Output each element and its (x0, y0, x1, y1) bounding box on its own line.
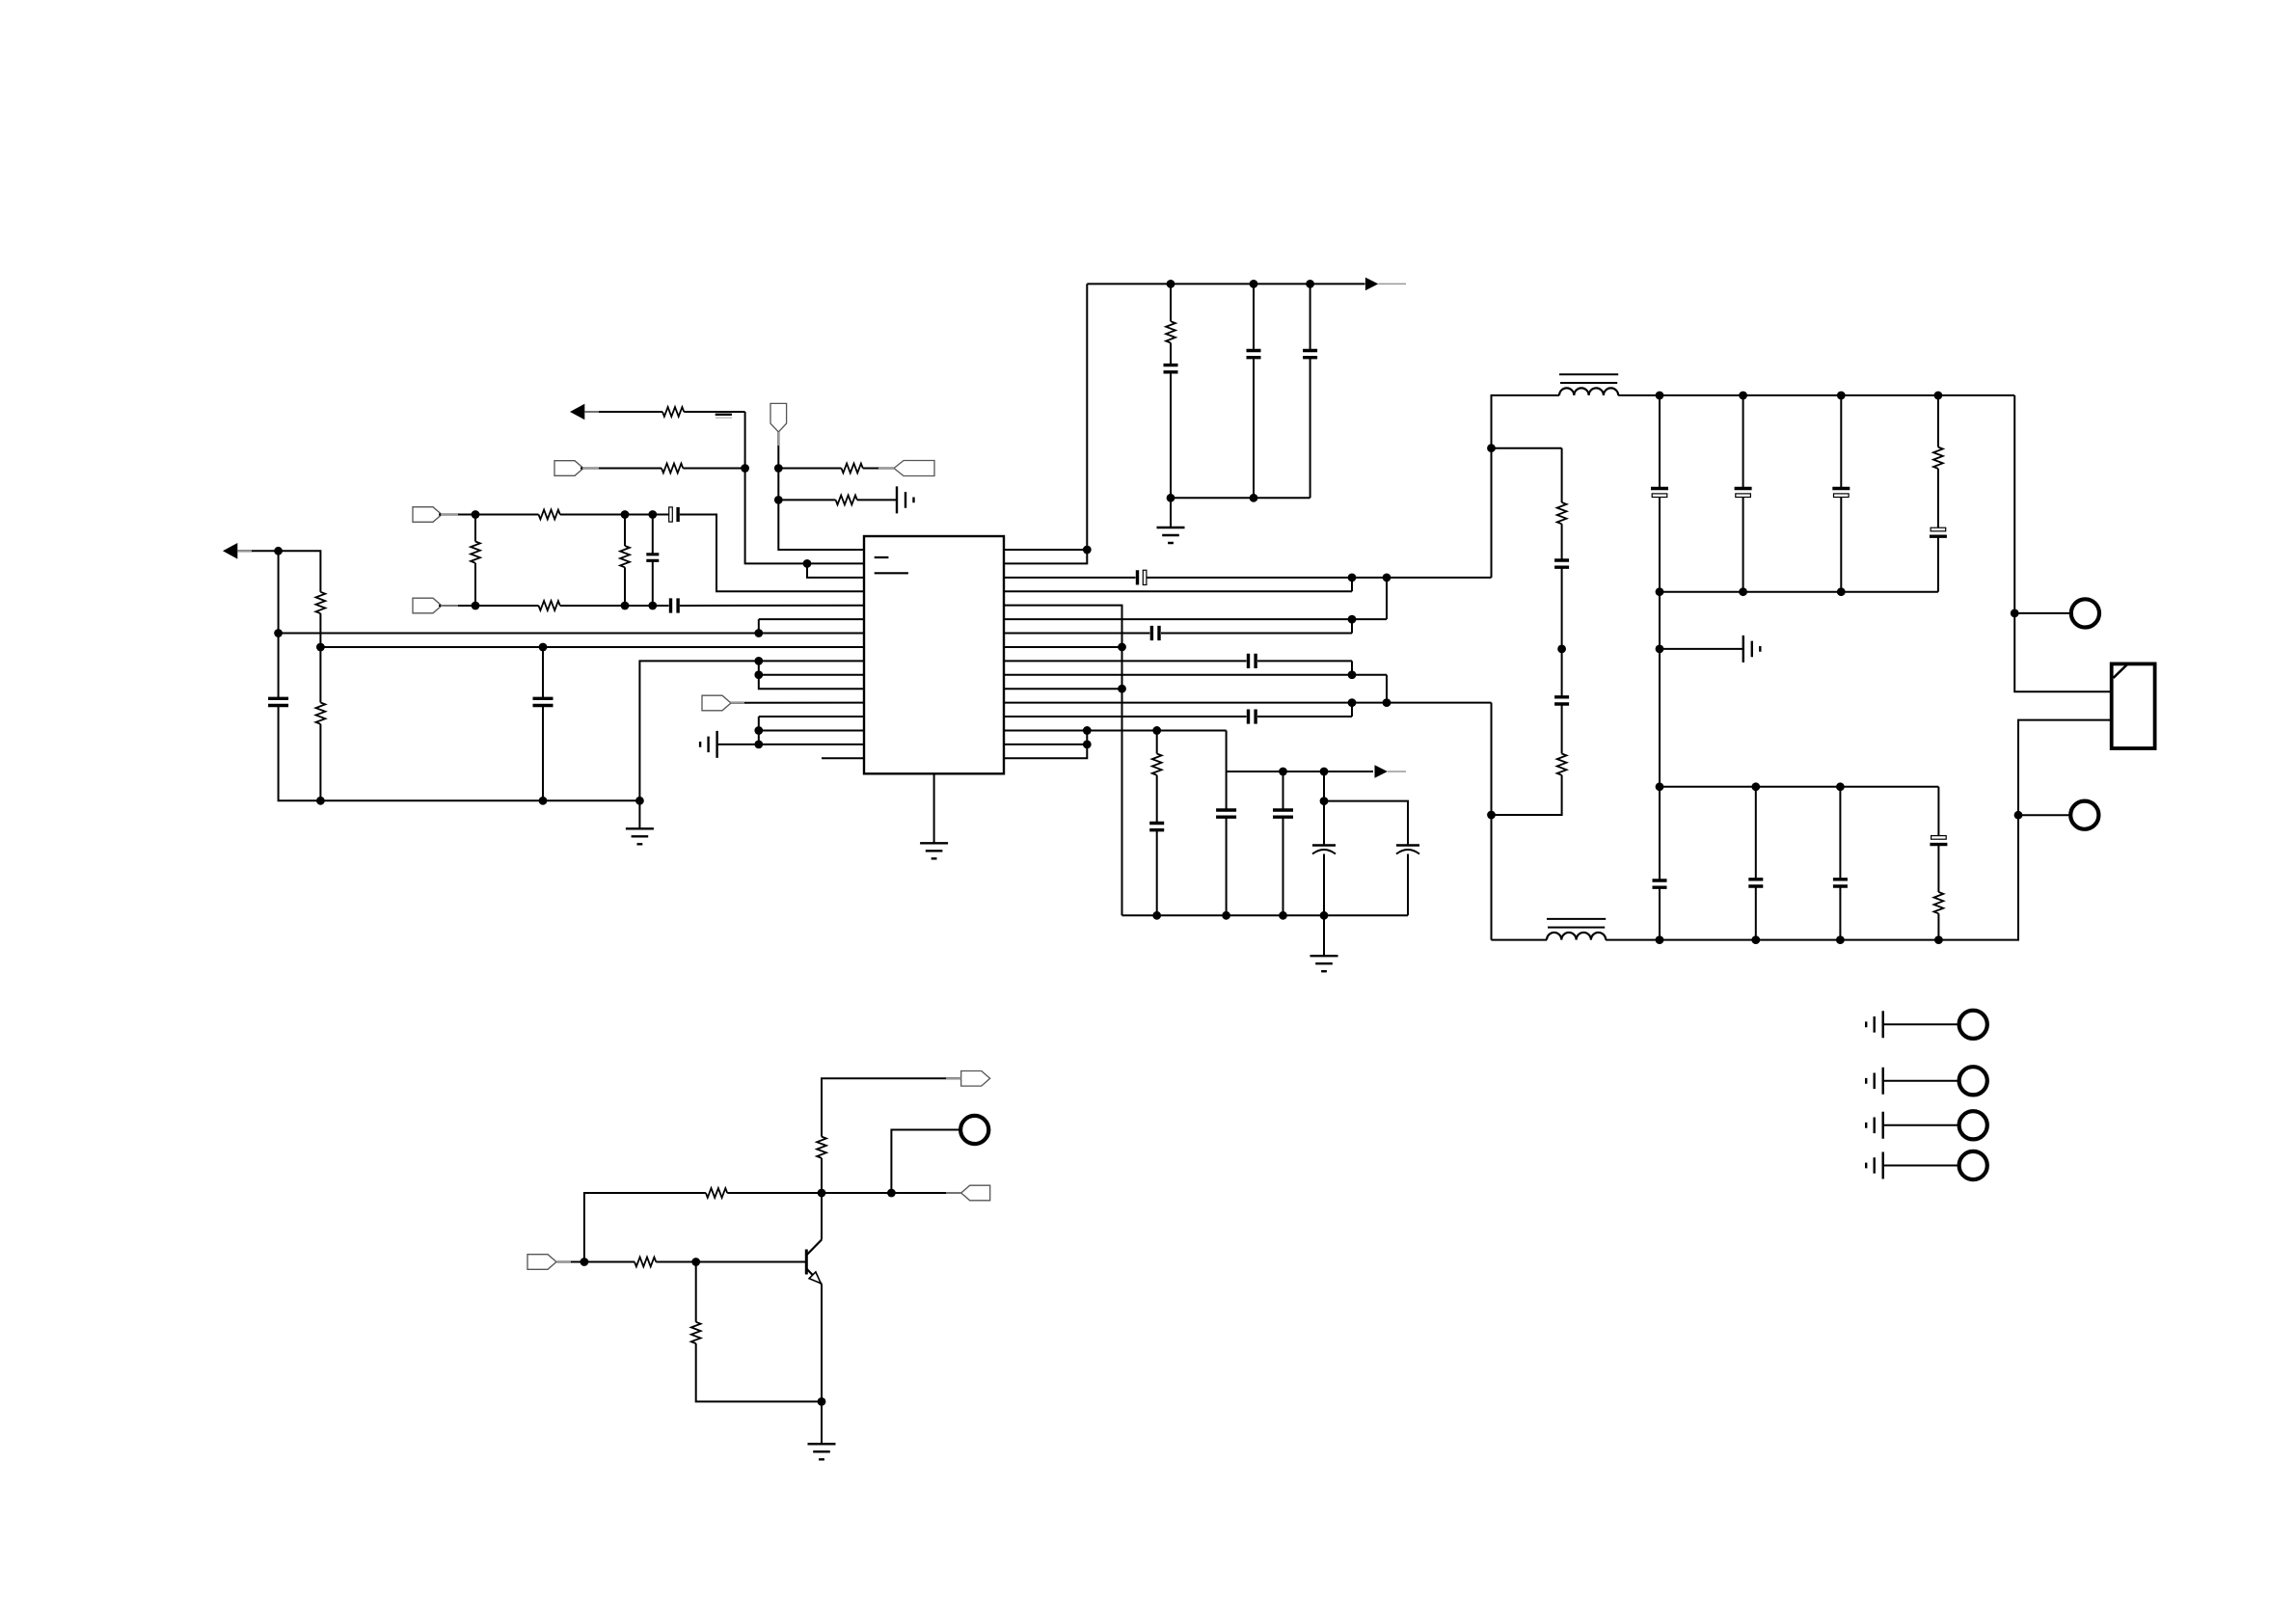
wire U1 ground stem (933, 773, 935, 843)
wire R2 (1004, 550, 1087, 563)
wire (821, 1158, 823, 1193)
wire (653, 514, 669, 516)
wire (1351, 578, 1353, 591)
wire (1659, 498, 1661, 649)
wire (1170, 343, 1172, 365)
ground (1157, 528, 1185, 543)
lead (1388, 771, 1406, 772)
wire (1659, 787, 1661, 880)
capacitor C3 (1303, 351, 1317, 358)
wire (560, 514, 653, 516)
wire R3b (1147, 577, 1492, 579)
resistor R5 (539, 601, 560, 610)
wire (2018, 814, 2070, 816)
wire to IC pin5 (680, 605, 864, 607)
wire (1659, 395, 1661, 489)
junction (648, 510, 657, 519)
capacitor C1 (1164, 365, 1178, 372)
junction node AOUTL (274, 547, 283, 555)
capacitor C2 (1247, 351, 1261, 358)
junction (621, 602, 630, 610)
transistor Q1 (806, 1240, 822, 1285)
junction (1250, 494, 1258, 502)
junction (2014, 811, 2023, 820)
junction (2011, 609, 2019, 618)
capacitor C6 (669, 507, 678, 522)
resistor R1 (1166, 321, 1175, 342)
wire (1883, 1165, 1959, 1167)
resistor R3 (316, 703, 326, 724)
lead (878, 468, 894, 470)
wire (1755, 886, 1757, 940)
wire (1310, 284, 1311, 350)
wire (542, 706, 544, 801)
wire (656, 1261, 806, 1263)
ground chassis (700, 731, 717, 758)
wire to IC pin12 (731, 702, 865, 704)
wire (2014, 395, 2111, 691)
wire (1492, 775, 1562, 815)
wire (474, 563, 476, 606)
capacitor C19 (1651, 489, 1668, 498)
lead (777, 432, 779, 446)
junction (1152, 911, 1161, 920)
wire (1351, 619, 1353, 633)
wire (695, 1262, 697, 1322)
capacitor C12 (1249, 709, 1256, 723)
wire (863, 468, 894, 470)
junction (1083, 726, 1092, 735)
wire (653, 605, 669, 607)
wire (278, 551, 280, 633)
resistor R8 (662, 407, 684, 417)
resistor R10 (842, 464, 863, 474)
junction (1320, 797, 1329, 805)
wire R9a (1004, 660, 1247, 662)
wire (1283, 771, 1284, 810)
capacitor C11 (1249, 654, 1256, 668)
junction (316, 643, 325, 652)
wire R12 (1004, 702, 1492, 704)
junction (274, 629, 283, 637)
lead (557, 1261, 571, 1263)
lead (441, 605, 458, 607)
wire (1156, 830, 1158, 916)
wire (624, 567, 626, 606)
junction (754, 629, 763, 637)
capacitor C5 (533, 698, 554, 705)
resistor R6 (471, 542, 480, 563)
wire (542, 647, 544, 698)
connector J5 (1959, 1067, 1987, 1095)
junction (774, 464, 783, 473)
lead (731, 702, 745, 704)
resistor R14b (1933, 447, 1943, 469)
junction (1306, 280, 1314, 288)
capacitor C26 (1833, 880, 1848, 886)
lead (946, 1077, 961, 1079)
junction (754, 657, 763, 665)
wire top rail (1660, 394, 2014, 396)
capacitor C15 (1273, 810, 1293, 817)
U1 pin-1 marks (875, 557, 908, 573)
wire (624, 515, 626, 547)
wire R11 (1004, 688, 1122, 690)
wire (237, 550, 278, 552)
resistor R11 (836, 496, 857, 505)
wire to IC pin4 (680, 515, 864, 592)
junction (1348, 698, 1357, 707)
wire (822, 1192, 891, 1194)
wire (652, 515, 654, 555)
wire (1755, 787, 1757, 880)
wire R3a (1004, 577, 1136, 579)
junction (1837, 392, 1846, 400)
arrow DVDD (570, 404, 584, 420)
wire (279, 551, 321, 592)
wire R6 (1004, 618, 1387, 620)
junction (754, 740, 763, 748)
wire (2014, 612, 2070, 614)
junction (1656, 782, 1664, 791)
resistor R9 (662, 464, 683, 474)
wire (727, 1192, 822, 1194)
wire (1883, 1080, 1959, 1082)
wire (717, 744, 759, 745)
wire (1351, 661, 1353, 674)
capacitor C16 electrolytic (1312, 846, 1336, 854)
connector J6 (1959, 1111, 1987, 1139)
junction (472, 602, 480, 610)
ground (1310, 956, 1338, 971)
wire (1937, 469, 1939, 529)
junction (1167, 494, 1175, 502)
wire (319, 647, 321, 703)
junction (635, 797, 644, 805)
wire (1618, 394, 1660, 396)
port CTRL-OUT (961, 1185, 990, 1201)
junction (1118, 685, 1126, 693)
wire (1386, 578, 1388, 619)
wire (1492, 447, 1562, 449)
ground chassis 3 (1866, 1112, 1883, 1139)
capacitor C10 (1151, 626, 1159, 640)
resistor R19 (817, 1137, 826, 1158)
wire (1324, 801, 1408, 846)
junction (316, 797, 325, 805)
junction (1739, 392, 1747, 400)
junction (1167, 280, 1175, 288)
junction (1837, 587, 1846, 596)
wire (1839, 787, 1841, 880)
wire gnd rail (320, 799, 639, 801)
wire (1323, 915, 1325, 956)
wire (584, 1261, 635, 1263)
wire (1883, 1023, 1959, 1025)
wire AVDD riser (1086, 284, 1088, 550)
wire (1323, 771, 1325, 846)
wire (475, 514, 539, 516)
ground (920, 843, 948, 858)
wire (1606, 720, 2111, 940)
junction (1656, 587, 1664, 596)
wire (1253, 284, 1255, 350)
wire to IC pin15 (759, 744, 864, 745)
junction (1487, 444, 1496, 452)
wire R8 (1004, 646, 1122, 648)
wire (1310, 358, 1311, 499)
wire OUTL net (1492, 395, 1560, 578)
wire R7a (1004, 633, 1149, 635)
resistor R12b (1152, 754, 1162, 775)
junction (754, 726, 763, 735)
resistor R16b (1934, 892, 1944, 913)
wire (1561, 704, 1563, 754)
wire (475, 605, 539, 607)
wire pin6 riser (758, 619, 760, 633)
wire R10 (1004, 674, 1387, 676)
junction (1656, 645, 1664, 654)
wire R13a (1004, 716, 1247, 717)
ground (626, 828, 654, 844)
wire (1937, 845, 1939, 892)
wire (278, 634, 280, 699)
lead (582, 468, 599, 470)
wire (439, 605, 475, 607)
inductor L2 (1547, 919, 1606, 940)
wire (1170, 498, 1172, 528)
wire (1561, 567, 1563, 649)
wire (584, 1193, 706, 1262)
wire DVDD vertical (745, 412, 807, 563)
wire (1840, 498, 1842, 592)
wire (778, 499, 835, 501)
resistor R18 (706, 1188, 727, 1198)
junction (1836, 782, 1845, 791)
wire R4 (1004, 590, 1352, 592)
capacitor C18 (1554, 560, 1569, 567)
wire (1937, 913, 1939, 939)
wire mid rail (1660, 591, 1938, 593)
capacitor C22 (1930, 528, 1947, 536)
inductor L1 (1559, 374, 1618, 395)
wire (319, 613, 321, 647)
junction (581, 1258, 589, 1266)
wire bottom rail (1122, 914, 1409, 916)
connector J2 (2070, 801, 2098, 829)
capacitor C13 (1149, 824, 1164, 830)
junction (774, 496, 783, 504)
ground chassis 2 (1866, 1068, 1883, 1095)
junction (1250, 280, 1258, 288)
resistor R2 (316, 592, 326, 613)
wire (1170, 284, 1172, 321)
wire (1156, 730, 1158, 753)
wire (474, 515, 476, 542)
junction (754, 670, 763, 679)
capacitor C9 (1138, 570, 1147, 584)
wire R14 (1004, 729, 1227, 731)
capacitor C24 (1653, 880, 1667, 887)
wire R7b (1161, 633, 1352, 635)
junction (621, 510, 630, 519)
wire (1323, 854, 1325, 916)
wire (1386, 675, 1388, 703)
wire (319, 724, 321, 801)
wire (1937, 787, 1939, 838)
wire (560, 605, 653, 607)
wire to IC pin10 (759, 674, 864, 676)
wire to IC pin13 (759, 716, 864, 717)
wire AVDD top rail (1087, 283, 1364, 284)
junction (1348, 670, 1357, 679)
wire (1283, 817, 1284, 915)
wire bottom of C1-C3 (1171, 497, 1310, 499)
wire pins 10-11 riser (759, 661, 864, 689)
wire (1226, 771, 1228, 810)
junction (1348, 615, 1357, 624)
wire R15 (1004, 744, 1087, 745)
wire (684, 411, 744, 413)
wire (1659, 887, 1661, 939)
connector J8 (960, 1116, 988, 1144)
resistor R7 (620, 546, 630, 567)
wire (1170, 372, 1172, 499)
wire (1937, 536, 1939, 592)
port GVDD (770, 403, 787, 432)
capacitor C4 (268, 698, 288, 705)
wire (891, 1192, 960, 1194)
arrow AOUTL (223, 543, 237, 559)
wire (557, 1261, 584, 1263)
junction (1279, 768, 1287, 776)
wire (1226, 730, 1228, 771)
port FAULT (894, 461, 934, 476)
capacitor C7 (671, 598, 679, 612)
junction (1487, 811, 1496, 820)
wire riser to IC pin9 (639, 661, 864, 800)
junction (1739, 587, 1747, 596)
connector J7 (1959, 1151, 1987, 1179)
junction (1934, 935, 1943, 944)
junction (803, 559, 812, 568)
wire (1742, 395, 1744, 489)
wire (1407, 854, 1409, 916)
wire (891, 1130, 959, 1194)
port PVDD-sense (554, 461, 583, 476)
wire (1659, 649, 1661, 787)
net tick mark (716, 414, 732, 416)
port INL (413, 507, 442, 523)
wire (683, 468, 744, 470)
ground (808, 1444, 836, 1459)
wire (1742, 498, 1744, 592)
wire (822, 1078, 961, 1136)
wire (1839, 886, 1841, 940)
lead (946, 1192, 961, 1194)
wire emitter (821, 1285, 823, 1402)
wire DVDD-out row (1227, 771, 1373, 772)
wire (1840, 395, 1842, 489)
junction (1222, 911, 1230, 920)
junction (1751, 782, 1760, 791)
junction (691, 1258, 700, 1266)
wire (279, 706, 321, 801)
capacitor C27 (1930, 836, 1947, 845)
wire (1253, 358, 1255, 499)
wire (696, 1343, 822, 1401)
op-amp U1 class-D amplifier IC body (864, 536, 1004, 773)
junction (887, 1189, 896, 1198)
junction (1348, 573, 1357, 582)
lead (1378, 283, 1406, 284)
port INR (413, 598, 442, 613)
wire (1883, 1124, 1959, 1126)
junction (1320, 911, 1329, 920)
junction (539, 643, 548, 652)
wire (1226, 817, 1228, 915)
wire bottom rail (1492, 939, 1548, 941)
ground chassis (897, 486, 914, 513)
junction (818, 1189, 826, 1198)
ground chassis 4 (1866, 1152, 1883, 1179)
junction (1656, 392, 1664, 400)
wire OUTR net (1491, 703, 1493, 940)
wire to IC pin6 (759, 618, 864, 620)
wire (584, 411, 662, 413)
junction (1836, 935, 1845, 944)
junction (1320, 768, 1329, 776)
wire (778, 468, 841, 470)
lead (584, 411, 599, 413)
capacitor C21 (1832, 489, 1850, 498)
wire R16 (1004, 730, 1087, 758)
lead (441, 514, 458, 516)
resistor R4 (539, 510, 560, 520)
wire (1351, 703, 1353, 717)
junction (1383, 698, 1391, 707)
junction (1083, 740, 1092, 748)
wire stub IC pin16 (822, 757, 864, 759)
resistor R20 (691, 1322, 701, 1343)
port CTRL-IN (527, 1255, 556, 1270)
junction (1152, 726, 1161, 735)
junction (1656, 935, 1664, 944)
junction (1279, 911, 1287, 920)
wire (1561, 524, 1563, 560)
wire (439, 514, 475, 516)
wire mid rail 2 (1660, 786, 1938, 788)
arrow DVDD out (1375, 765, 1388, 778)
wire (1156, 775, 1158, 824)
arrow AVDD out (1365, 278, 1378, 291)
ground chassis 1 (1866, 1011, 1883, 1038)
junction (818, 1397, 826, 1406)
speaker connector J3 (2112, 663, 2155, 748)
wire (857, 499, 897, 501)
capacitor C25 (1748, 880, 1763, 886)
capacitor C23 (1554, 697, 1569, 704)
lead (237, 550, 252, 552)
junction (1751, 935, 1760, 944)
wire (821, 1193, 823, 1240)
junction (1934, 392, 1943, 400)
capacitor C14 (1216, 810, 1236, 817)
capacitor C8 (646, 555, 659, 561)
wire (638, 800, 640, 828)
resistor R17 (635, 1258, 656, 1267)
connector J4 (1959, 1011, 1987, 1039)
